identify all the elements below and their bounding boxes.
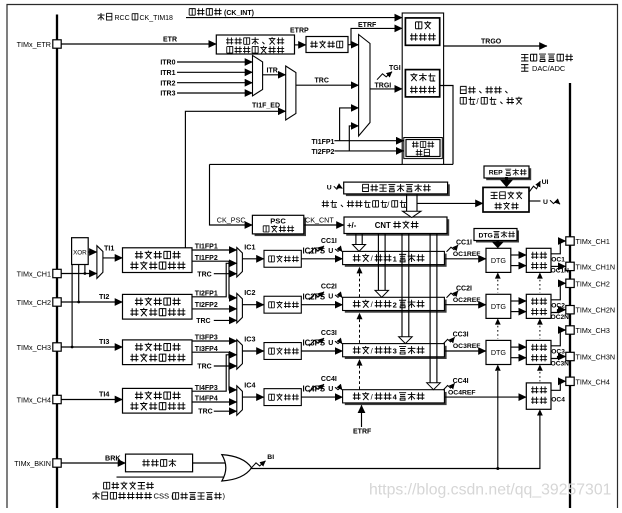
- box encoder interface: [404, 138, 443, 159]
- box capture/compare register 3: [345, 346, 447, 359]
- box output control 1: [526, 248, 551, 272]
- svg-text:OC4: OC4: [551, 396, 565, 403]
- wire ITR3: [177, 92, 253, 94]
- label capture/compare register 2 text: [353, 300, 361, 307]
- box prescaler 3: [264, 343, 301, 360]
- box input filter ETR: [306, 37, 348, 53]
- label stop clear up/down: [322, 200, 329, 207]
- box DTG register: [476, 231, 519, 243]
- wires DTG2 to output control: [511, 300, 527, 302]
- label from clock controller CSS: [92, 492, 99, 500]
- mux IC1 select: [237, 248, 243, 278]
- svg-text:TIMx_CH2: TIMx_CH2: [17, 298, 51, 307]
- svg-text:ITR0: ITR0: [160, 60, 175, 67]
- wire OC2N to pin: [551, 310, 566, 313]
- wire ITR0: [177, 61, 253, 63]
- svg-text:TRC: TRC: [315, 78, 329, 85]
- update arrows into output control boxes: [537, 272, 543, 278]
- wire TI1FP1 to encoder: [334, 140, 403, 142]
- wire IC2: [242, 304, 264, 306]
- svg-text:(CK_INT): (CK_INT): [224, 10, 254, 17]
- pin TIMx_CH4: [53, 395, 61, 403]
- box prescaler 2: [264, 296, 301, 313]
- svg-text:CK_PSC: CK_PSC: [217, 216, 246, 225]
- wire IC3: [242, 350, 264, 352]
- svg-text:TI3FP4: TI3FP4: [195, 346, 218, 353]
- svg-text:2: 2: [393, 300, 397, 309]
- svg-text:+/-: +/-: [347, 221, 357, 230]
- wire IC2PS: [301, 304, 342, 306]
- wire ETRP: [295, 44, 307, 46]
- wire TI2FP2 to encoder: [334, 150, 403, 152]
- svg-text:BI: BI: [267, 454, 274, 461]
- svg-text:TIMx_CH3: TIMx_CH3: [17, 343, 51, 352]
- svg-text:IC2: IC2: [244, 288, 255, 297]
- svg-text:XOR: XOR: [73, 249, 87, 256]
- wire IC3PS: [301, 350, 342, 352]
- svg-text:TI1FP2: TI1FP2: [195, 255, 218, 262]
- wire TRC to IC2 mux: [214, 319, 237, 321]
- wires DTG1 to output control: [511, 254, 527, 256]
- svg-text:TI1: TI1: [104, 243, 114, 252]
- box DTG 3: [486, 340, 511, 364]
- hollow arrow ARR to CNT: [406, 194, 408, 211]
- box input filter edge detector 4: [123, 388, 193, 413]
- mux IC2 select: [237, 293, 243, 323]
- svg-text:UI: UI: [542, 179, 549, 186]
- wire OC1 to pin: [551, 241, 566, 254]
- wire CK_CNT: [304, 224, 344, 226]
- svg-text:TIMx_CH1: TIMx_CH1: [576, 237, 610, 246]
- svg-text:TIMx_CH1N: TIMx_CH1N: [576, 262, 616, 271]
- mux IC4 select: [237, 386, 243, 416]
- wire IC1PS: [301, 258, 342, 260]
- svg-text:CC4I: CC4I: [453, 378, 469, 385]
- label capture/compare register 3 text: [353, 346, 361, 353]
- wire ITR1: [177, 71, 253, 73]
- wire OC4 to pin: [551, 381, 566, 390]
- wire TI1FP1: [192, 249, 237, 251]
- svg-text:DTG: DTG: [491, 302, 507, 311]
- wire ETRF to mux: [348, 44, 359, 46]
- wires DTG3 to output control: [511, 346, 527, 348]
- svg-text:TIMx_CH3N: TIMx_CH3N: [576, 353, 616, 362]
- dashed capture transfer arrows: [357, 267, 363, 274]
- svg-text:OC2: OC2: [551, 302, 565, 309]
- wire OC4REF: [444, 396, 526, 398]
- wire TI4FP4: [192, 401, 237, 403]
- label clock failure event: [104, 482, 110, 489]
- wire TI1FP2 down to IC2 mux: [192, 261, 237, 298]
- box output control 4: [526, 383, 551, 409]
- svg-text:TGI: TGI: [389, 65, 401, 72]
- wire CH2 to XOR: [78, 265, 80, 303]
- wire TI3FP4 down to IC4 mux: [192, 352, 237, 390]
- wire TRGI: [370, 88, 402, 90]
- mux ITR select: [253, 55, 263, 96]
- box DTG 1: [486, 248, 511, 272]
- svg-text:OC1N: OC1N: [551, 268, 570, 275]
- update arrows into DTG boxes: [495, 272, 501, 278]
- box CNT counter: [346, 219, 449, 236]
- svg-text:CK_TIM18: CK_TIM18: [140, 15, 174, 22]
- svg-text:DAC/ADC: DAC/ADC: [532, 64, 566, 73]
- svg-text:TI3FP3: TI3FP3: [195, 335, 218, 342]
- svg-text:ITR1: ITR1: [160, 70, 175, 77]
- pin TIMx_BKIN: [53, 459, 61, 467]
- svg-text:TIMx_CH4: TIMx_CH4: [576, 377, 610, 386]
- svg-text:TIMx_CH2N: TIMx_CH2N: [576, 306, 616, 315]
- box REP register: [486, 168, 531, 180]
- box prescaler 4: [264, 389, 301, 406]
- svg-text:U: U: [328, 248, 333, 255]
- svg-text:BRK: BRK: [105, 453, 121, 462]
- svg-text:ITR: ITR: [267, 67, 278, 74]
- svg-text:TIMx_CH3: TIMx_CH3: [576, 326, 610, 335]
- svg-text:https://blog.csdn.net/qq_39257: https://blog.csdn.net/qq_39257301: [369, 482, 612, 499]
- svg-text:CC3I: CC3I: [321, 330, 337, 337]
- wire CH3 to XOR: [71, 265, 73, 348]
- svg-text:CC1I: CC1I: [456, 240, 472, 247]
- mux TRC select: [286, 66, 296, 120]
- svg-text:TI4FP3: TI4FP3: [195, 385, 218, 392]
- svg-text:OC2REF: OC2REF: [453, 297, 481, 304]
- wire slave-mode status: [440, 86, 453, 165]
- svg-text:CC2I: CC2I: [321, 284, 337, 291]
- box output control 2: [526, 294, 551, 318]
- svg-text:CK_CNT: CK_CNT: [305, 216, 334, 225]
- box XOR: [72, 238, 89, 265]
- svg-text:OC2N: OC2N: [551, 314, 570, 321]
- pin TIMx_CH4 (right): [566, 377, 574, 385]
- wire TRC to IC1 mux: [214, 273, 237, 275]
- box input filter edge detector 2: [123, 294, 193, 319]
- pin TIMx_CH2N (right): [566, 306, 574, 314]
- wire OC3 to pin: [551, 330, 566, 346]
- svg-text:TRC: TRC: [197, 363, 211, 370]
- wire ITR2: [177, 82, 253, 84]
- svg-text:OC1REF: OC1REF: [453, 251, 481, 258]
- mux TI1 select: [97, 246, 103, 279]
- svg-text:U: U: [328, 340, 333, 347]
- wire TI1F_ED: [185, 111, 285, 248]
- box polarity/edge-detector/prescaler ETR: [216, 35, 294, 54]
- pin TIMx_ETR: [53, 40, 61, 48]
- pin TIMx_CH1: [53, 269, 61, 277]
- wire TI1: [103, 257, 123, 259]
- svg-text:DTG: DTG: [491, 348, 507, 357]
- wire TRGO: [444, 45, 547, 47]
- wire BRK: [61, 462, 125, 464]
- pin TIMx_CH3 (right): [566, 326, 574, 334]
- label 内部时钟 (CK_INT): [189, 9, 195, 16]
- wire TI4FP3 up to IC3 mux: [192, 355, 237, 391]
- wire IC4PS: [301, 396, 342, 398]
- svg-text:TI2: TI2: [99, 292, 109, 301]
- wire TI2FP1 up to IC1 mux: [192, 263, 237, 297]
- svg-text:TI4: TI4: [99, 390, 109, 399]
- box auto-reload register: [346, 184, 450, 196]
- box output control 3: [526, 340, 551, 364]
- wire TI2FP2 riser to mux: [349, 126, 358, 151]
- svg-text:CC1I: CC1I: [321, 238, 337, 245]
- wire BI to output control 4: [537, 409, 543, 415]
- wire CH1 to TI1 mux: [61, 273, 97, 275]
- OR gate brake: [222, 455, 252, 481]
- svg-text:U: U: [327, 185, 332, 192]
- svg-text:TIMx_CH4: TIMx_CH4: [17, 396, 51, 405]
- svg-text:ETRF: ETRF: [353, 429, 372, 436]
- svg-text:IC3: IC3: [244, 335, 255, 344]
- wire TI3FP3: [192, 340, 237, 342]
- svg-text:OC4REF: OC4REF: [448, 389, 476, 396]
- svg-text:RCC: RCC: [115, 15, 130, 22]
- svg-text:CSS (: CSS (: [154, 492, 175, 501]
- mux TRGI select: [359, 35, 370, 137]
- wire TRC: [296, 84, 359, 86]
- box DTG 2: [486, 294, 511, 318]
- wire TRC to IC4 mux: [214, 410, 237, 412]
- box input filter edge detector 1: [123, 248, 193, 273]
- pin TIMx_CH3N (right): [566, 352, 574, 360]
- wire TI1FP1 riser to mux: [340, 108, 359, 141]
- box capture/compare register 4: [345, 392, 447, 405]
- svg-text:TI1FP1: TI1FP1: [195, 244, 218, 251]
- arrow DTG register to DTG1: [496, 241, 499, 243]
- svg-text:TIMx_CH2: TIMx_CH2: [576, 279, 610, 288]
- pin TIMx_CH1N (right): [566, 262, 574, 270]
- pin TIMx_CH2 (right): [566, 279, 574, 287]
- svg-text:ETRF: ETRF: [358, 22, 377, 29]
- svg-text:DTG: DTG: [491, 256, 507, 265]
- svg-text:ETRP: ETRP: [290, 28, 309, 35]
- svg-text:TI3: TI3: [99, 337, 109, 346]
- hollow arrow CNT to capture/compare register 1: [355, 234, 357, 245]
- svg-text:TI1FP1: TI1FP1: [312, 139, 335, 146]
- svg-text:TI2FP2: TI2FP2: [312, 149, 335, 156]
- svg-text:ITR2: ITR2: [160, 80, 175, 87]
- wire ETR: [61, 43, 216, 45]
- label to other timers: [521, 54, 528, 61]
- svg-text:OC3N: OC3N: [551, 360, 570, 367]
- svg-text:TRGI: TRGI: [375, 82, 392, 89]
- svg-text:U: U: [328, 294, 333, 301]
- svg-text:TIMx_CH1: TIMx_CH1: [17, 270, 51, 279]
- svg-text:3: 3: [393, 347, 397, 356]
- arrow REP to repetition counter: [505, 177, 508, 181]
- svg-text:OC1: OC1: [551, 256, 565, 263]
- wire CSS clock fail: [117, 476, 228, 478]
- hollow arrow CNT to capture/compare register 2: [377, 234, 379, 291]
- pin TIMx_CH3: [53, 343, 61, 351]
- box PSC prescaler: [255, 218, 306, 237]
- svg-text:CC2I: CC2I: [456, 285, 472, 292]
- svg-text:IC1: IC1: [244, 242, 255, 251]
- svg-text:TI4FP4: TI4FP4: [195, 395, 218, 402]
- svg-text:TIMx_BKIN: TIMx_BKIN: [14, 459, 51, 468]
- wire TI2FP2: [192, 308, 237, 310]
- right pin bus: [569, 83, 571, 508]
- wire OC2 to pin: [551, 283, 566, 300]
- svg-text:TI2FP1: TI2FP1: [195, 291, 218, 298]
- label 来自RCC的CK_TIM18: [97, 13, 104, 20]
- wire OC3N to pin: [551, 357, 566, 359]
- svg-text:CNT: CNT: [375, 221, 391, 230]
- pin TIMx_CH2: [53, 298, 61, 306]
- label capture/compare register 1 text: [353, 254, 361, 261]
- junction dots XOR inputs: [84, 272, 87, 275]
- label to DAC/ADC: [521, 65, 528, 72]
- box prescaler 1: [264, 250, 301, 267]
- svg-text:TI1F_ED: TI1F_ED: [252, 103, 280, 110]
- wire ETRF to trigger controller: [351, 28, 402, 44]
- svg-text:TRGO: TRGO: [481, 39, 502, 46]
- wire OC2REF: [444, 304, 486, 306]
- box polarity select BRK: [126, 454, 193, 472]
- svg-text:IC4: IC4: [244, 381, 255, 390]
- svg-text:PSC: PSC: [270, 216, 286, 225]
- wire CH1 to XOR: [84, 265, 86, 274]
- left pin bus: [56, 15, 58, 509]
- wire update to DTG3 from brake line: [497, 371, 499, 469]
- label capture/compare register 4 text: [353, 393, 361, 400]
- label U out of repetition counter: [529, 200, 541, 202]
- svg-text:TIMx_ETR: TIMx_ETR: [17, 40, 51, 49]
- wire OC1REF: [444, 258, 486, 260]
- svg-text:OC3: OC3: [551, 348, 565, 355]
- svg-text:TRC: TRC: [198, 409, 212, 416]
- wire CK_INT: [186, 17, 402, 19]
- wire TI3: [61, 346, 122, 348]
- svg-text:TI2FP2: TI2FP2: [195, 302, 218, 309]
- box capture/compare register 2: [345, 300, 447, 313]
- box trigger controller: [405, 18, 439, 45]
- wire TRC to IC3 mux: [214, 365, 237, 367]
- label reset enable up/down count: [460, 86, 466, 93]
- svg-text:REP: REP: [489, 170, 503, 177]
- box input filter edge detector 3: [123, 340, 193, 365]
- box repetition counter: [483, 187, 529, 212]
- svg-text:CC4I: CC4I: [321, 376, 337, 383]
- hollow arrow CNT to capture/compare register 3: [401, 234, 403, 337]
- box controller outline: [402, 13, 443, 164]
- pin TIMx_CH1 (right): [566, 237, 574, 245]
- svg-text:TRC: TRC: [196, 318, 210, 325]
- box capture/compare register 1: [345, 254, 447, 267]
- wire polarity to OR gate: [193, 462, 226, 464]
- svg-text:DTG: DTG: [479, 232, 493, 239]
- svg-text:ETR: ETR: [163, 37, 177, 44]
- wire ETRF to register4: [361, 405, 363, 427]
- svg-text:U: U: [328, 386, 333, 393]
- wire ITR: [263, 74, 286, 76]
- svg-text:U: U: [543, 199, 548, 206]
- wire TI4: [61, 399, 122, 401]
- svg-text:TRC: TRC: [197, 272, 211, 279]
- svg-text:CC3I: CC3I: [453, 332, 469, 339]
- wire OC1N to pin: [551, 265, 566, 267]
- wire XOR output: [88, 251, 97, 253]
- wire CK_PSC: [210, 163, 403, 165]
- svg-text:ITR3: ITR3: [160, 91, 175, 98]
- wire TI2: [61, 301, 122, 303]
- box slave mode controller: [405, 70, 439, 97]
- mux IC3 select: [237, 340, 243, 370]
- svg-text:OC3REF: OC3REF: [453, 343, 481, 350]
- wire U to repetition counter: [417, 202, 483, 204]
- wire IC4: [242, 396, 264, 398]
- wire OC3REF: [444, 350, 486, 352]
- hollow arrow CNT to capture/compare register 4: [429, 234, 431, 383]
- wire IC1: [242, 258, 264, 260]
